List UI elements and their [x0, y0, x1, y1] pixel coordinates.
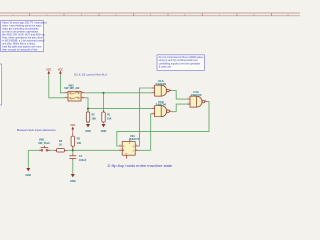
svg-text:GND: GND — [70, 180, 76, 183]
svg-text:10K: 10K — [107, 118, 112, 121]
svg-text:1: 1 — [65, 91, 66, 93]
svg-text:2: 2 — [153, 91, 154, 93]
svg-text:VCC: VCC — [58, 68, 63, 71]
svg-text:1: 1 — [40, 149, 41, 151]
svg-text:6: 6 — [136, 149, 137, 151]
svg-text:GND: GND — [101, 130, 107, 133]
svg-text:Manual clock input+debounce: Manual clock input+debounce — [17, 128, 56, 132]
svg-text:10K: 10K — [92, 118, 97, 121]
svg-text:& carry out: & carry out — [159, 65, 172, 69]
svg-text:100nF: 100nF — [79, 159, 87, 162]
svg-text:VCC: VCC — [70, 124, 75, 127]
svg-text:4: 4 — [82, 91, 83, 93]
svg-text:3: 3 — [170, 89, 171, 91]
svg-text:3: 3 — [82, 96, 83, 98]
svg-text:than enough for doing all of t: than enough for doing all of this. — [2, 48, 38, 51]
svg-text:6: 6 — [170, 110, 171, 112]
svg-text:S1 & S2 control the ALU: S1 & S2 control the ALU — [74, 72, 107, 76]
svg-text:8: 8 — [205, 100, 206, 102]
svg-text:VCC: VCC — [46, 68, 51, 71]
svg-text:1: 1 — [153, 87, 154, 89]
svg-text:74HC00: 74HC00 — [155, 82, 166, 86]
svg-text:2: 2 — [65, 96, 66, 98]
svg-text:4: 4 — [153, 107, 154, 109]
svg-text:GND: GND — [26, 174, 32, 177]
svg-text:1: 1 — [127, 157, 128, 159]
svg-text:D flip-flop holds entire machi: D flip-flop holds entire machine state — [108, 163, 173, 168]
svg-text:SW_DIP_x02: SW_DIP_x02 — [64, 87, 80, 90]
svg-text:74HC00: 74HC00 — [191, 93, 202, 97]
svg-text:5: 5 — [136, 145, 137, 147]
svg-text:GND: GND — [85, 130, 91, 133]
svg-text:3: 3 — [120, 149, 121, 151]
svg-text:2: 2 — [120, 145, 121, 147]
svg-text:1K: 1K — [59, 143, 62, 146]
svg-text:2: 2 — [48, 149, 49, 151]
svg-text:SW_Push: SW_Push — [38, 142, 50, 145]
svg-text:5: 5 — [153, 112, 154, 114]
svg-text:10: 10 — [188, 103, 190, 105]
svg-text:74HC00: 74HC00 — [155, 103, 166, 107]
svg-text:9: 9 — [188, 98, 189, 100]
svg-text:10K: 10K — [77, 142, 82, 145]
svg-text:4: 4 — [130, 140, 131, 142]
